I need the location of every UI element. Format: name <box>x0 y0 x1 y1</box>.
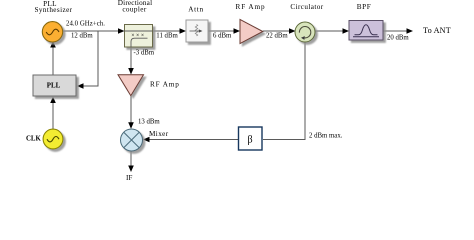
CLK oscillator <box>43 129 63 149</box>
BPF symbol bell curve <box>355 25 378 35</box>
attenuator symbol <box>195 25 197 36</box>
arrowhead into mixer right <box>143 137 150 143</box>
svg-text:β: β <box>247 135 252 146</box>
wire coupler down to rf amp 2 <box>130 47 132 70</box>
svg-text:Attn: Attn <box>188 6 204 14</box>
wire circulator down and left to mixer through beta <box>263 42 305 140</box>
wire CLK to PLL <box>52 99 54 129</box>
RF amp triangle top <box>240 19 263 43</box>
wire BPF to antenna <box>383 30 408 32</box>
arrowhead into rf amp 2 <box>128 68 134 75</box>
arrowhead into mixer top <box>128 122 134 129</box>
wire oscillator to directional coupler <box>61 30 119 32</box>
arrowhead into oscillator bottom <box>50 41 56 48</box>
wire mixer to IF <box>130 151 132 167</box>
svg-text:11 dBm: 11 dBm <box>156 33 178 40</box>
arrowhead into rf amp <box>234 28 241 34</box>
svg-text:PLL: PLL <box>47 82 61 89</box>
svg-text:Mixer: Mixer <box>149 130 169 138</box>
coupler coupled line <box>131 38 148 47</box>
arrowhead IF out <box>128 166 134 173</box>
svg-text:12 dBm: 12 dBm <box>71 33 93 40</box>
wire junction down to PLL feedback <box>79 31 98 86</box>
svg-text:RF Amp: RF Amp <box>236 3 266 11</box>
arrowhead into PLL bottom <box>50 97 56 104</box>
svg-text:BPF: BPF <box>357 3 372 11</box>
arrowhead into circulator <box>289 28 296 34</box>
svg-text:Synthesizer: Synthesizer <box>35 6 73 14</box>
svg-text:2 dBm max.: 2 dBm max. <box>309 132 343 139</box>
wire rf amp 2 to mixer <box>130 96 132 124</box>
arrowhead to ANT <box>407 28 414 34</box>
RF amp triangle down <box>118 75 144 96</box>
svg-text:20 dBm: 20 dBm <box>387 34 409 41</box>
svg-text:IF: IF <box>126 174 132 182</box>
circulator <box>295 22 315 42</box>
svg-text:To ANT: To ANT <box>423 26 451 35</box>
circulator arrow <box>299 27 310 38</box>
svg-text:RF Amp: RF Amp <box>150 81 180 89</box>
oscillator PLL synthesizer <box>42 22 62 42</box>
wire rf amp to circulator <box>263 30 291 32</box>
svg-text:Circulator: Circulator <box>290 3 323 11</box>
attenuator box <box>186 20 208 42</box>
PLL box <box>33 75 76 96</box>
BPF box <box>349 21 383 41</box>
mixer <box>121 129 143 151</box>
wire circulator to BPF <box>315 30 345 32</box>
beta box <box>239 127 263 150</box>
arrowhead into BPF <box>343 28 350 34</box>
arrowhead into coupler <box>118 28 125 34</box>
svg-text:6 dBm: 6 dBm <box>213 33 232 40</box>
svg-text:22 dBm: 22 dBm <box>266 32 288 39</box>
svg-text:coupler: coupler <box>122 6 147 14</box>
directional coupler box <box>125 25 153 48</box>
svg-text:13 dBm: 13 dBm <box>138 119 160 126</box>
wire beta to mixer <box>147 139 239 141</box>
arrowhead into attn <box>180 28 187 34</box>
wire attn to rf amp <box>208 30 235 32</box>
svg-text:-3 dBm: -3 dBm <box>134 49 155 56</box>
coupler through line <box>125 30 153 32</box>
wire PLL to oscillator <box>52 44 54 75</box>
svg-text:CLK: CLK <box>26 136 41 143</box>
wire coupler to attn <box>153 30 182 32</box>
arrowhead into PLL right <box>77 83 84 89</box>
svg-text:24.0 GHz+ch.: 24.0 GHz+ch. <box>66 21 105 28</box>
